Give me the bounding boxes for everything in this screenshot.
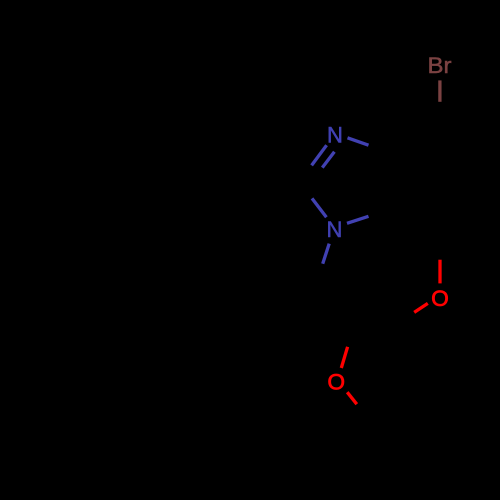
bond N1-CH3 (half) <box>323 244 330 264</box>
bond N3=C2 inner line (half) <box>322 152 334 168</box>
bond Br-C4 (half, vertical) <box>438 80 441 101</box>
svg-text:O: O <box>431 286 449 311</box>
bond N1-C7a (half) <box>347 216 369 223</box>
bond N3-C3a (half) <box>348 138 369 145</box>
svg-text:O: O <box>327 370 345 395</box>
bond O1-CH2 (half, down-left) <box>414 303 428 312</box>
bond O2-CH3 (half, down-right) <box>347 392 357 404</box>
bond C2-N1 (half) <box>312 198 326 217</box>
bond N3=C2 outer line (half) <box>312 145 327 165</box>
bond CH2-O2 (half, up-right) <box>341 347 347 368</box>
bond C7-O1 (half, vertical) <box>438 260 441 284</box>
svg-text:N: N <box>327 217 343 242</box>
svg-text:N: N <box>327 123 343 148</box>
svg-text:Br: Br <box>428 53 452 78</box>
